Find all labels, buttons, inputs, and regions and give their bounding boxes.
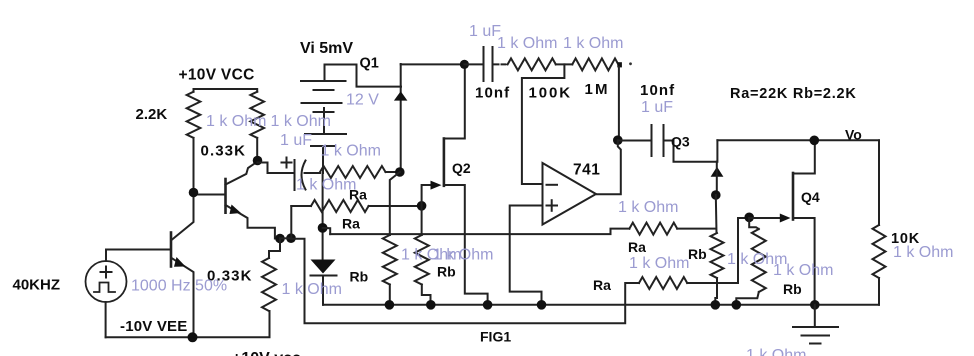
diode D1 [311,260,337,305]
wire Rb4 bottom hook [736,292,759,305]
capacitor C3 (10nf / 1 uF) [618,125,671,156]
svg-text:Rb: Rb [688,246,707,262]
junction bus dots [385,300,395,310]
resistor Rb (third, under Q3) [711,233,724,278]
wire dot1-dot2 [280,237,291,239]
svg-text:741: 741 [573,162,600,179]
resistor R 2.2K [187,92,201,138]
wire node F down / hook to long line [421,206,423,235]
svg-text:+10V VCC: +10V VCC [179,67,255,84]
wire dot1 to lower resistor [269,239,280,259]
wire Q4 gate [749,217,780,219]
junction node A (base of T2) [189,188,199,198]
svg-text:Q2: Q2 [452,160,471,176]
ground [793,305,838,344]
wire Rb2 bottom [422,285,431,305]
wire jog node C to Rb column [390,172,400,235]
wire Ra4 right lead to node L [687,218,749,283]
resistor R 1M [572,58,618,70]
resistor R 100K [508,58,556,70]
svg-text:1 k Ohm: 1 k Ohm [497,35,557,52]
svg-text:Ra=22K Rb=2.2K: Ra=22K Rb=2.2K [730,86,857,102]
svg-text:1 uF: 1 uF [280,132,312,149]
wire feedback from dot2 to bottom line [291,239,639,323]
svg-text:Ra: Ra [342,216,360,232]
svg-text:1 k Ohm: 1 k Ohm [321,143,381,160]
resistor Ra (third, from op-amp) [629,223,677,235]
svg-text:1000 Hz 50%: 1000 Hz 50% [131,278,227,295]
svg-text:Rb: Rb [350,269,369,285]
svg-text:Ra: Ra [593,277,611,293]
wire 0.33K bottom lead [256,138,258,161]
wire dot2 up to Ra2 lead [290,206,292,238]
resistor Ra (fourth, feedback bottom) [639,277,687,289]
svg-text:1 k Ohm: 1 k Ohm [746,347,806,356]
svg-text:12 V: 12 V [346,92,379,109]
capacitor C2 10nf [464,47,507,81]
transistor T1 (left NPN) [106,193,194,338]
op-amp U1 741 [543,163,597,225]
wire VCC rail [194,89,258,92]
wire Rb3 bottom [715,278,717,305]
transistor T2 (second NPN) [194,162,281,239]
junction node H [613,135,623,145]
node square after 1M [617,62,622,67]
svg-text:1 k Ohm: 1 k Ohm [893,244,953,261]
wire Ra2 leads [291,205,311,207]
wire Ra3 right lead [677,228,715,230]
wire main ground bus [323,304,879,306]
wire feedback column [618,67,620,140]
junction diode top dot [318,223,328,233]
transistor Q4 [793,140,815,304]
junction node E (emitter bus) [188,332,198,342]
svg-text:2.2K: 2.2K [136,106,168,123]
junction node I [810,136,820,146]
svg-text:+10V vcc: +10V vcc [232,350,301,356]
wire VEE bus [106,311,270,337]
svg-text:-10V VEE: -10V VEE [120,318,187,335]
svg-text:Ra: Ra [628,239,646,255]
svg-text:Q1: Q1 [360,55,379,71]
resistor Ra (second) [311,200,369,212]
svg-text:40KHZ: 40KHZ [13,277,61,294]
svg-text:1 k Ohm: 1 k Ohm [773,262,833,279]
svg-text:1 k Ohm: 1 k Ohm [296,177,356,194]
transistor Q1 column [394,64,465,172]
wire 2.2K bottom lead [193,138,195,193]
svg-text:1M: 1M [585,81,610,98]
junction node L [744,213,754,223]
svg-text:Q3: Q3 [671,134,690,150]
junction node C [395,167,405,177]
resistor R 10K [873,225,886,278]
wire node J to Rb3 [715,195,718,233]
svg-text:0.33K: 0.33K [201,143,247,160]
svg-text:100K: 100K [529,85,572,102]
wire Q2 gate [422,185,431,206]
resistor Rb (second vertical) [415,235,429,285]
wire 10K leads [878,140,880,225]
battery V 12V / Vi 5mV stack [301,65,401,174]
transistor Q3 path [671,140,879,195]
svg-text:1 k Ohm: 1 k Ohm [563,35,623,52]
pulse source V1 [86,250,127,338]
wire tap to op-amp minus [522,64,565,184]
svg-text:10nf: 10nf [640,82,675,99]
svg-text:1 k Ohm: 1 k Ohm [271,113,331,130]
svg-text:10nf: 10nf [475,85,510,102]
resistor Rb (fourth) [752,229,766,292]
junction node F [417,201,427,211]
svg-text:1 k Ohm: 1 k Ohm [206,113,266,130]
svg-text:1 uF: 1 uF [641,99,673,116]
wire node to diode column [322,173,324,260]
svg-text:Vi 5mV: Vi 5mV [300,40,353,57]
wire 100K-1M link [556,63,573,65]
svg-text:Rb: Rb [437,264,456,280]
wire op-amp plus input [510,206,543,305]
capacitor C1 polarized (1 uF) [258,158,321,191]
wire Rb1 bottom [389,285,391,305]
svg-text:1 k Ohm: 1 k Ohm [629,255,689,272]
wire Ra1 to node C [386,171,400,173]
junction node J [711,190,721,200]
svg-text:FIG1: FIG1 [480,329,511,345]
resistor R 0.33K (upper) [250,92,264,138]
svg-text:1 k Ohm: 1 k Ohm [618,199,678,216]
junction node B (collector of T2) [253,156,263,166]
resistor Ra (first, after C1) [320,166,386,178]
resistor R 0.33K (lower, 1 k Ohm) [262,258,276,311]
wire hook dot to Rb1 top [323,228,331,234]
svg-text:Q4: Q4 [801,189,820,205]
svg-text:Vo: Vo [845,127,862,143]
transistor Q2 [444,64,488,304]
svg-text:1 k Ohm: 1 k Ohm [282,281,342,298]
svg-text:Rb: Rb [783,281,802,297]
wire node H to op-amp output [597,140,621,194]
wire node L to Rb4 [749,218,759,229]
resistor Rb (first vertical) [383,235,397,285]
svg-text:1 k Ohm: 1 k Ohm [433,247,493,264]
junction node D [460,60,469,69]
junction dot2 [286,233,296,243]
junction dot1 [275,234,285,244]
